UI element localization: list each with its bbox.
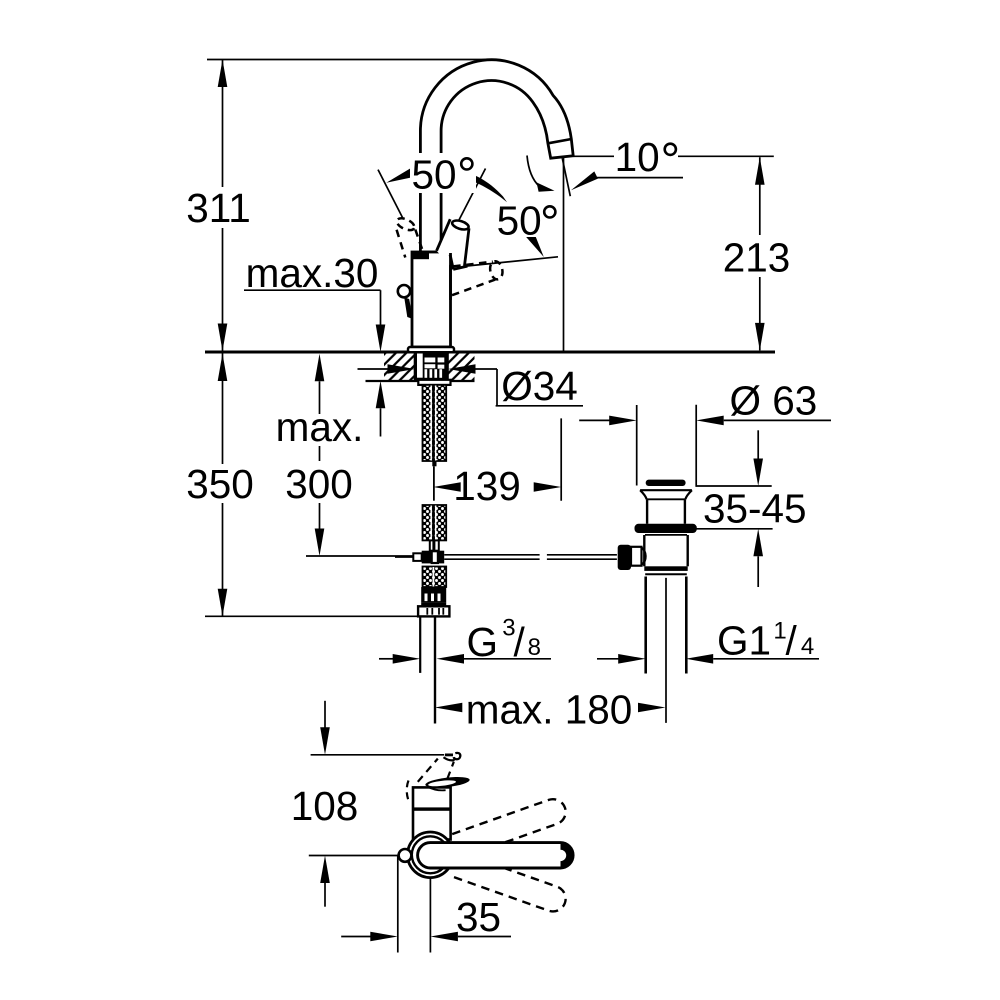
svg-text:35: 35 (456, 894, 501, 940)
svg-text:/: / (514, 619, 526, 665)
svg-text:max. 180: max. 180 (466, 687, 633, 733)
svg-text:35-45: 35-45 (703, 486, 807, 532)
svg-text:G1: G1 (717, 618, 771, 664)
svg-text:8: 8 (528, 634, 541, 661)
svg-text:300: 300 (285, 461, 353, 507)
svg-text:Ø 63: Ø 63 (729, 378, 817, 424)
svg-text:10: 10 (615, 134, 660, 180)
svg-text:108: 108 (291, 783, 359, 829)
svg-text:213: 213 (723, 235, 791, 281)
svg-text:311: 311 (186, 185, 251, 231)
svg-text:139: 139 (453, 463, 521, 509)
svg-text:Ø34: Ø34 (501, 363, 578, 409)
svg-text:50: 50 (411, 152, 456, 198)
svg-text:G: G (467, 619, 499, 665)
svg-text:350: 350 (186, 461, 254, 507)
svg-text:/: / (786, 618, 798, 664)
svg-text:max.: max. (276, 404, 364, 450)
svg-text:4: 4 (801, 633, 814, 660)
svg-text:max.30: max.30 (246, 250, 379, 296)
svg-text:50: 50 (497, 198, 542, 244)
